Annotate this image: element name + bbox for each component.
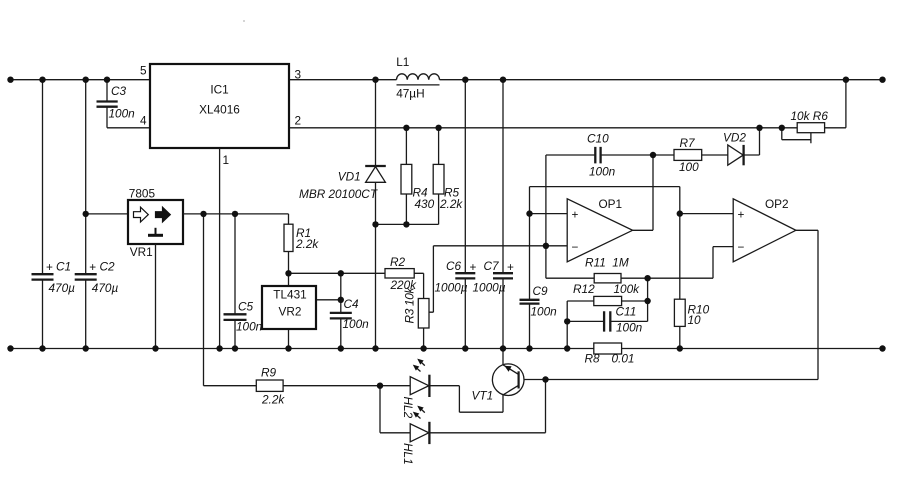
svg-text:430: 430: [415, 197, 435, 211]
transistor VT1: [472, 349, 525, 403]
wire: IC1 pin1 to ground rail: [219, 148, 221, 349]
svg-text:R8: R8: [585, 352, 601, 366]
artifact dot: [243, 20, 245, 22]
node: VD1/R4 bottom junctions: [372, 221, 409, 227]
wire: VR1 output 5V bus: [183, 213, 289, 215]
wire: R2 to R3: [414, 273, 423, 298]
svg-text:VR1: VR1: [130, 245, 153, 259]
svg-text:1000µ: 1000µ: [473, 281, 506, 295]
wire: OP1 output up to C10/R7 node: [633, 155, 653, 230]
svg-text:VD2: VD2: [723, 131, 746, 145]
svg-text:100k: 100k: [614, 282, 641, 296]
LED HL1: [380, 380, 546, 465]
diode VD1 MBR20100CT: [299, 80, 386, 349]
node: VT1 base junction: [542, 376, 548, 382]
capacitor C11: [567, 278, 647, 334]
svg-text:+: +: [89, 260, 96, 274]
svg-text:R7: R7: [680, 136, 696, 150]
svg-text:10k R6: 10k R6: [791, 109, 829, 123]
wire: OP2 output to VT1 base: [519, 230, 818, 379]
svg-text:C4: C4: [344, 297, 360, 311]
svg-text:1M: 1M: [612, 256, 629, 270]
svg-text:+: +: [738, 208, 745, 222]
op-amp IC1 XL4016 box: [140, 64, 302, 168]
wire: IC1 pin2 feedback bus: [289, 127, 797, 129]
svg-text:1000µ: 1000µ: [435, 281, 468, 295]
node: R4/R5 top junctions on pin2 bus: [403, 125, 442, 131]
svg-text:+: +: [470, 260, 477, 274]
wire: VT1 emitter to HL2 cathode: [459, 386, 503, 413]
svg-text:R11: R11: [585, 256, 606, 270]
wire: bottom rail left of R8: [10, 348, 594, 350]
svg-text:VT1: VT1: [472, 389, 494, 403]
capacitor C9: [520, 187, 558, 349]
node: C4 junctions: [338, 270, 344, 303]
svg-text:1: 1: [223, 153, 230, 167]
resistor R12: [567, 282, 647, 349]
svg-text:470µ: 470µ: [49, 281, 76, 295]
svg-text:R3 10k: R3 10k: [403, 287, 417, 324]
svg-text:2.2k: 2.2k: [439, 197, 463, 211]
node: OP1 - input / C10 / R11 junction: [543, 243, 549, 249]
svg-text:470µ: 470µ: [92, 281, 119, 295]
resistor R4: [401, 128, 435, 225]
svg-text:C11: C11: [616, 305, 637, 319]
wire: current sense node to op-amp non-inverting inputs: [530, 187, 734, 300]
svg-text:TL431: TL431: [273, 288, 306, 302]
svg-text:C2: C2: [100, 260, 116, 274]
inductor L1: [396, 55, 439, 101]
svg-text:3: 3: [295, 68, 302, 82]
node: top rail terminals and junctions: [7, 77, 885, 83]
svg-text:VD1: VD1: [338, 170, 361, 184]
svg-text:C6: C6: [446, 259, 462, 273]
svg-text:2: 2: [295, 113, 302, 127]
resistor R11: [546, 246, 733, 283]
svg-text:100n: 100n: [109, 107, 136, 121]
capacitor C2: [75, 80, 119, 349]
svg-text:0.01: 0.01: [612, 352, 635, 366]
svg-text:7805: 7805: [129, 187, 156, 201]
node: R9 / HL1 branch junction: [377, 383, 383, 389]
shunt regulator VR2 TL431: [262, 273, 341, 348]
node: OP1 + input tap: [526, 210, 532, 216]
svg-text:5: 5: [140, 64, 147, 78]
svg-text:C1: C1: [56, 260, 71, 274]
wire: top rail from IC1 pin3 to L1: [289, 79, 397, 81]
svg-text:R9: R9: [261, 366, 277, 380]
svg-text:100n: 100n: [343, 317, 370, 331]
capacitor C10: [546, 132, 674, 246]
svg-text:C3: C3: [111, 84, 127, 98]
resistor R1: [284, 214, 319, 273]
svg-text:100n: 100n: [531, 305, 558, 319]
capacitor C4: [330, 273, 369, 348]
op-amp OP2: [733, 197, 796, 262]
op-amp OP1: [567, 197, 632, 262]
node: C11 left junction: [564, 318, 570, 324]
svg-text:100n: 100n: [616, 321, 643, 335]
resistor R7: [674, 136, 728, 174]
node: VD2 / R6 junctions on pin2 bus: [756, 125, 785, 131]
shunt resistor R8: [585, 343, 635, 366]
wire: R1 bottom to R2: [289, 272, 386, 274]
wire: top rail left segment: [10, 79, 150, 81]
wire: 5V drop to R9: [203, 214, 205, 386]
svg-text:10: 10: [688, 313, 702, 327]
resistor R10: [674, 299, 709, 348]
potentiometer R6: [782, 80, 846, 144]
svg-text:−: −: [738, 240, 745, 254]
svg-text:R2: R2: [390, 255, 406, 269]
node: OP1 output / C10 / R7 junction: [650, 152, 656, 158]
svg-text:100: 100: [679, 160, 699, 174]
svg-text:100n: 100n: [589, 165, 616, 179]
svg-text:C5: C5: [238, 300, 254, 314]
svg-text:2.2k: 2.2k: [261, 393, 285, 407]
regulator VR1 7805: [86, 187, 183, 260]
node: R11/R12 right junctions: [644, 275, 650, 304]
svg-text:2.2k: 2.2k: [295, 237, 319, 251]
capacitor C1: [32, 80, 76, 349]
capacitor C6: [435, 80, 477, 349]
svg-text:+: +: [507, 260, 514, 274]
diode VD2: [723, 128, 760, 166]
wire: VD1 node to R4/R5 bottoms: [376, 223, 439, 225]
svg-text:HL1: HL1: [401, 443, 415, 465]
wire: bottom rail right of R8: [622, 348, 883, 350]
svg-text:47µH: 47µH: [396, 87, 424, 101]
svg-text:C10: C10: [587, 132, 609, 146]
wire: R3 wiper to OP1 inverting input: [433, 246, 567, 312]
svg-text:R12: R12: [573, 282, 595, 296]
svg-text:L1: L1: [396, 55, 409, 69]
svg-text:100n: 100n: [236, 320, 263, 334]
svg-text:+: +: [46, 260, 53, 274]
wire: VR1 ground lead to bottom rail: [155, 244, 157, 349]
capacitor C5: [224, 214, 263, 349]
node: VR1 input tap: [83, 211, 89, 217]
trimmer R3: [403, 287, 434, 349]
svg-text:IC1: IC1: [210, 83, 228, 97]
svg-text:HL2: HL2: [401, 397, 415, 419]
svg-text:C9: C9: [533, 284, 549, 298]
svg-text:+: +: [572, 208, 579, 222]
svg-text:VR2: VR2: [279, 305, 302, 319]
resistor R5: [433, 128, 463, 225]
svg-text:−: −: [572, 240, 579, 254]
svg-text:XL4016: XL4016: [199, 103, 240, 117]
svg-text:OP1: OP1: [599, 197, 623, 211]
node: OP2 + input tap: [677, 210, 683, 216]
capacitor C3: [97, 80, 151, 128]
node: 5V bus junctions: [200, 211, 238, 217]
capacitor C7: [473, 80, 515, 349]
wire: top rail right segment: [440, 79, 883, 81]
resistor R2: [385, 255, 417, 292]
svg-text:OP2: OP2: [765, 197, 789, 211]
resistor R9: [204, 366, 381, 407]
svg-text:4: 4: [140, 113, 147, 127]
svg-text:C7: C7: [484, 259, 500, 273]
LED HL2: [380, 359, 459, 419]
node: bottom rail terminals and junctions: [7, 345, 885, 351]
svg-text:MBR 20100CT: MBR 20100CT: [299, 187, 378, 201]
node: R1/TL431 junction: [285, 270, 291, 276]
